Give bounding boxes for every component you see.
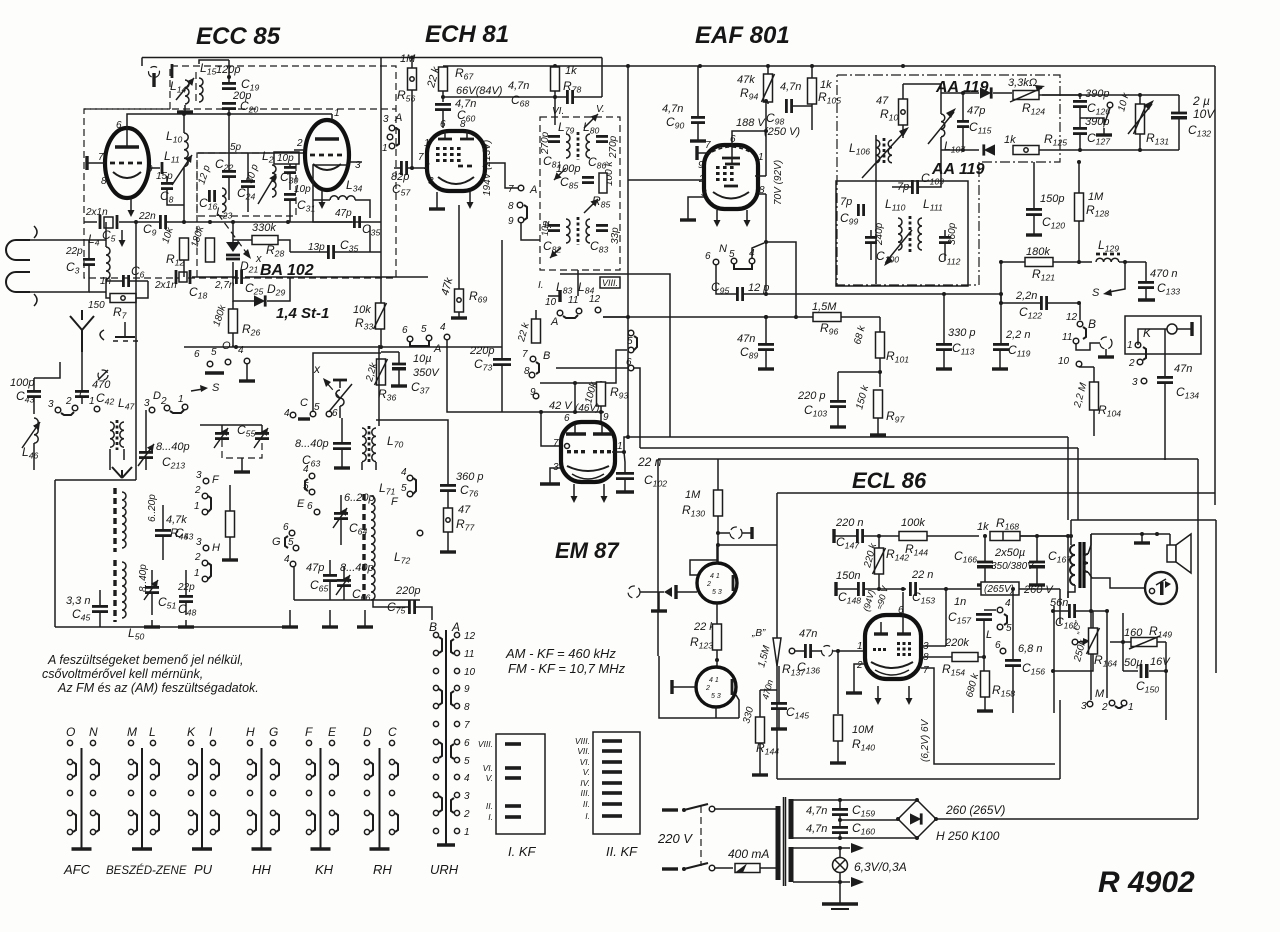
fuse 400mA xyxy=(735,864,760,873)
capacitor C100 xyxy=(865,237,877,242)
coil L46 xyxy=(34,418,38,443)
capacitor C35 xyxy=(354,216,359,228)
resistor R130 xyxy=(714,490,723,516)
bracket 7-8 B xyxy=(536,362,539,374)
svg-text:L72: L72 xyxy=(394,550,410,566)
wire xyxy=(105,222,107,247)
tube EAF801 anode bar xyxy=(722,157,740,160)
svg-text:FM - KF = 10,7 MHz: FM - KF = 10,7 MHz xyxy=(508,661,626,676)
svg-text:R26: R26 xyxy=(242,322,260,338)
contact xyxy=(389,125,395,131)
wire xyxy=(89,291,106,293)
capacitor C109 xyxy=(912,180,917,194)
capacitor C89 xyxy=(758,344,774,349)
resistor 180k xyxy=(206,238,215,262)
tube anode bar b xyxy=(315,137,339,140)
junction xyxy=(999,301,1003,305)
tall coil L71-L72 winding xyxy=(371,496,375,600)
svg-text:6: 6 xyxy=(564,413,570,424)
svg-text:R94: R94 xyxy=(740,86,758,102)
svg-text:6,8 n: 6,8 n xyxy=(1018,643,1042,655)
wire xyxy=(1178,119,1180,150)
wire 437bus to transformer xyxy=(1067,536,1069,598)
wire C43 top xyxy=(34,362,60,378)
wire xyxy=(88,246,90,259)
wire box right xyxy=(1165,642,1167,720)
svg-text:5: 5 xyxy=(401,483,407,494)
svg-text:6: 6 xyxy=(440,119,446,130)
terminal xyxy=(713,259,719,265)
L107 slash xyxy=(928,112,954,144)
junction xyxy=(286,220,290,224)
terminal xyxy=(557,310,563,316)
svg-text:L111: L111 xyxy=(923,197,943,213)
switch link dashed xyxy=(700,806,702,866)
tall coil core dashes upper xyxy=(113,488,116,552)
diode D29 xyxy=(254,295,265,306)
wire HT output xyxy=(936,818,1198,820)
wire K to jack xyxy=(1138,329,1167,345)
wire L70 to C76 xyxy=(376,420,448,484)
svg-text:R69: R69 xyxy=(469,289,487,305)
wire xyxy=(795,650,805,652)
ground xyxy=(846,686,862,693)
core dashes L14-L15 xyxy=(195,72,197,102)
svg-text:I. KF: I. KF xyxy=(508,844,537,859)
svg-text:4: 4 xyxy=(284,554,290,565)
switch group BESZÉD-ZENE xyxy=(106,725,187,877)
wire to pin1 xyxy=(833,650,865,652)
svg-text:H 250 K100: H 250 K100 xyxy=(936,829,1000,843)
terminal xyxy=(517,202,523,208)
junction xyxy=(1066,534,1070,538)
ground xyxy=(234,465,250,472)
svg-text:47p: 47p xyxy=(967,105,985,117)
svg-text:4: 4 xyxy=(401,467,407,478)
svg-text:11: 11 xyxy=(1062,332,1072,343)
junction xyxy=(1051,669,1055,673)
wire xyxy=(162,505,164,530)
wire long vertical x628 xyxy=(627,66,629,310)
svg-text:AA 119: AA 119 xyxy=(931,161,985,178)
terminal xyxy=(310,411,316,417)
junction xyxy=(1035,534,1039,538)
junction xyxy=(961,148,965,152)
wire xyxy=(228,60,230,83)
wire pin1 to riser xyxy=(755,175,766,177)
capacitor C86 xyxy=(596,136,608,141)
switch group URH xyxy=(429,620,476,877)
capacitor C103 xyxy=(830,401,846,406)
svg-text:8: 8 xyxy=(101,176,107,187)
svg-text:1: 1 xyxy=(464,827,470,838)
wire xyxy=(340,495,342,513)
svg-text:4: 4 xyxy=(464,773,470,784)
switch contact top xyxy=(709,806,715,812)
wire xyxy=(697,106,699,117)
resistor R77 xyxy=(444,508,453,532)
R164 wiper arrow xyxy=(1078,641,1086,642)
junction xyxy=(982,655,986,659)
trimmer arrow C213 xyxy=(138,444,154,466)
contact 5 EM xyxy=(628,347,634,353)
wire xyxy=(1104,108,1110,125)
wire y459 left drop to triode2 xyxy=(657,459,659,656)
junction xyxy=(553,95,557,99)
bracket D xyxy=(170,410,184,413)
wire C162 right xyxy=(1076,610,1107,612)
svg-text:2: 2 xyxy=(856,660,863,671)
svg-text:R 4902: R 4902 xyxy=(1098,866,1195,899)
svg-text:6: 6 xyxy=(705,251,711,262)
svg-text:350V: 350V xyxy=(413,367,440,379)
svg-text:(46V): (46V) xyxy=(575,403,599,414)
ground L14 xyxy=(177,105,193,112)
ground xyxy=(758,362,774,369)
wire contact4 up xyxy=(752,243,764,258)
wire antenna to C42 xyxy=(81,362,83,391)
capacitor C43 xyxy=(27,391,41,396)
wire xyxy=(341,418,343,443)
wire pin3 left xyxy=(688,197,704,220)
svg-text:5 3: 5 3 xyxy=(712,589,722,596)
svg-text:2: 2 xyxy=(194,552,201,563)
junction xyxy=(764,292,768,296)
svg-text:II.: II. xyxy=(583,799,590,809)
svg-text:C112: C112 xyxy=(938,251,961,267)
wire pin9 drop xyxy=(600,412,602,422)
capacitor C65 xyxy=(323,575,337,580)
svg-text:12: 12 xyxy=(464,631,476,642)
svg-text:R131: R131 xyxy=(1146,131,1169,147)
resistor R105 xyxy=(808,78,817,104)
ground xyxy=(690,134,706,141)
wire xyxy=(1139,134,1141,150)
wire tuning to contact row xyxy=(339,414,341,418)
svg-text:3: 3 xyxy=(196,470,202,481)
resistor R125 xyxy=(1013,146,1039,155)
switch group HH xyxy=(246,725,279,877)
wire L34 left xyxy=(313,199,330,201)
wire R130 down xyxy=(717,516,719,563)
junction xyxy=(838,846,842,850)
junction xyxy=(934,817,938,821)
wire xyxy=(944,243,946,260)
wire R144b top xyxy=(759,690,761,717)
svg-text:C5: C5 xyxy=(102,228,116,244)
oscillator dashed divider xyxy=(196,160,198,278)
junction xyxy=(182,220,186,224)
svg-text:7: 7 xyxy=(705,140,711,151)
svg-text:7: 7 xyxy=(522,349,528,360)
wire xyxy=(877,418,879,428)
wire C213 top xyxy=(145,410,147,452)
svg-text:47p: 47p xyxy=(335,208,352,219)
wire triode2 out xyxy=(736,695,739,718)
wire xyxy=(1079,107,1081,128)
svg-text:csővoltmérővel kell mérnünk,: csővoltmérővel kell mérnünk, xyxy=(42,667,203,681)
svg-text:AM - KF = 460 kHz: AM - KF = 460 kHz xyxy=(505,646,616,661)
svg-text:10p: 10p xyxy=(540,221,550,236)
wire bottom tie xyxy=(184,346,502,348)
wire xyxy=(878,574,880,589)
wire xyxy=(261,425,263,433)
junction xyxy=(915,836,919,840)
wire primary bottom xyxy=(1068,585,1075,598)
wire xyxy=(811,66,813,78)
tube EAF801 lower electrode xyxy=(724,185,738,188)
svg-text:5: 5 xyxy=(211,347,217,358)
capacitor C102 xyxy=(616,473,634,478)
electrolytic C37 xyxy=(392,364,406,371)
svg-text:R121: R121 xyxy=(1032,267,1055,283)
wire xyxy=(232,301,234,309)
capacitor C156 xyxy=(1005,660,1021,665)
cathode arrow EAF b xyxy=(744,210,751,227)
capacitor C63 xyxy=(333,443,351,448)
wire to C162 xyxy=(1059,589,1061,624)
svg-text:1: 1 xyxy=(382,143,388,154)
capacitor C18 xyxy=(176,270,190,284)
wire xyxy=(811,650,822,652)
svg-text:1M: 1M xyxy=(1088,191,1104,203)
tall coil core dashes lower xyxy=(113,560,116,622)
ground xyxy=(222,553,238,560)
svg-text:4: 4 xyxy=(1005,598,1011,609)
FM tuner dashed enclosure xyxy=(84,66,396,278)
C148 input bar xyxy=(834,582,837,596)
wire to C5 xyxy=(84,221,97,223)
EM87 cathode arc xyxy=(567,466,609,471)
svg-text:L: L xyxy=(986,629,992,641)
terminal xyxy=(290,412,296,418)
svg-text:150: 150 xyxy=(88,300,105,311)
svg-text:F: F xyxy=(212,474,220,486)
trimmer arrow C55b xyxy=(254,428,268,448)
varicap diode D21 xyxy=(226,242,240,259)
wire xyxy=(343,566,345,580)
wire R93 down xyxy=(600,406,602,412)
wire C24 xyxy=(247,160,249,181)
svg-text:I.: I. xyxy=(585,811,590,821)
wire xyxy=(221,425,223,433)
svg-text:C37: C37 xyxy=(411,380,430,396)
junction xyxy=(716,543,720,547)
svg-text:470: 470 xyxy=(92,379,111,391)
wire xyxy=(375,462,377,470)
capacitor C127 xyxy=(1073,128,1087,133)
wire R149 right xyxy=(1157,641,1166,643)
svg-text:330 p: 330 p xyxy=(948,327,976,339)
transformer L70 windings xyxy=(362,426,376,462)
svg-text:K: K xyxy=(1143,326,1152,340)
wire right frame vertical xyxy=(1214,66,1216,505)
wire xyxy=(944,230,946,237)
resistor R121 xyxy=(1025,258,1053,267)
svg-text:470 n: 470 n xyxy=(1150,268,1178,280)
ground xyxy=(752,768,768,775)
bracket 12-11 xyxy=(1083,327,1086,339)
transformer primary bar xyxy=(776,806,781,880)
capacitor C115 xyxy=(957,121,969,126)
junction xyxy=(1051,609,1055,613)
terminal xyxy=(94,406,100,412)
capacitor C64 xyxy=(334,513,348,518)
svg-text:C68: C68 xyxy=(511,93,529,109)
svg-text:150p: 150p xyxy=(1040,193,1064,205)
wire AVC line from C95 xyxy=(766,294,1001,303)
speaker symbol xyxy=(1167,534,1191,573)
svg-text:4: 4 xyxy=(440,322,446,333)
wire xyxy=(99,612,101,627)
svg-text:270p: 270p xyxy=(540,131,551,155)
triode2 grid bar xyxy=(672,680,696,694)
junction xyxy=(983,534,987,538)
svg-text:E: E xyxy=(297,498,305,510)
wire L34 right xyxy=(355,200,370,218)
resistor R123 xyxy=(713,624,722,650)
wire pin9 to contact7 xyxy=(484,163,518,188)
transformer L110 L111 windings xyxy=(898,216,922,252)
dashed terminal circle xyxy=(1100,337,1112,349)
wire xyxy=(767,66,769,74)
svg-text:100p: 100p xyxy=(556,163,580,175)
resistor R108 xyxy=(899,99,908,125)
tube ECL86 triode1 envelope xyxy=(697,563,737,603)
resistor R67 xyxy=(439,67,448,91)
wire speaker line xyxy=(1091,533,1170,535)
capacitor C45 xyxy=(92,606,108,611)
AVC line stub xyxy=(396,276,428,278)
wire R168 right xyxy=(1020,535,1071,537)
svg-text:L23: L23 xyxy=(216,205,232,221)
wire xyxy=(99,590,101,606)
wire xyxy=(106,280,122,282)
terminal xyxy=(1076,361,1082,367)
heater arrow top xyxy=(851,843,864,853)
svg-text:4,7n: 4,7n xyxy=(806,823,827,835)
wire xyxy=(458,312,460,318)
capacitor C160 xyxy=(832,827,848,832)
wire xyxy=(447,532,449,545)
wire left vertical xyxy=(135,281,137,480)
svg-text:R140: R140 xyxy=(852,737,875,753)
svg-text:III.: III. xyxy=(581,788,590,798)
mains switch arm top xyxy=(684,804,708,810)
svg-text:180k: 180k xyxy=(1026,246,1050,258)
trimmer arrow L14 xyxy=(176,78,194,100)
output transformer core bars xyxy=(1080,542,1084,588)
svg-text:47n: 47n xyxy=(1174,363,1192,375)
wire xyxy=(33,397,35,414)
transformer heater secondary bar xyxy=(789,847,794,882)
wire right frame lower xyxy=(1215,520,1217,673)
svg-text:A feszültségeket bemenő jel né: A feszültségeket bemenő jel nélkül, xyxy=(47,653,243,667)
capacitor C120 xyxy=(1026,209,1042,214)
svg-text:7: 7 xyxy=(553,438,559,449)
wire xyxy=(1093,410,1095,436)
tube ECL86 pentode envelope xyxy=(865,615,921,679)
svg-text:G: G xyxy=(272,536,281,548)
wire C73 vertical top xyxy=(501,240,503,359)
ground xyxy=(178,620,194,627)
wire C6 right xyxy=(130,280,148,282)
svg-text:L47: L47 xyxy=(118,396,135,412)
svg-text:C160: C160 xyxy=(852,821,875,837)
wire L106 left down xyxy=(875,135,877,284)
coil L15 xyxy=(199,78,203,102)
wire xyxy=(658,592,660,604)
svg-text:C119: C119 xyxy=(1008,343,1031,359)
wire contact12 right xyxy=(603,316,628,318)
wire xyxy=(340,519,342,545)
svg-text:1M: 1M xyxy=(400,53,416,65)
svg-text:R96: R96 xyxy=(820,321,838,337)
coil L34 xyxy=(330,196,355,200)
terminal xyxy=(314,509,320,515)
terminal xyxy=(207,361,213,367)
wire oscillator top xyxy=(199,60,229,64)
wire A4 to EM87 row xyxy=(447,340,604,412)
svg-text:C132: C132 xyxy=(1188,123,1211,139)
svg-text:R130: R130 xyxy=(682,503,705,519)
wire R108 down xyxy=(902,125,904,138)
wire C55 left entry xyxy=(200,424,222,426)
wire xyxy=(716,650,718,667)
wire xyxy=(289,164,291,167)
wire C98 to R105 xyxy=(792,105,812,107)
S switch arrow xyxy=(1103,262,1125,296)
svg-text:1: 1 xyxy=(1128,702,1134,713)
capacitor C48 xyxy=(179,596,193,601)
svg-text:270p: 270p xyxy=(608,135,619,159)
capacitor C3 xyxy=(83,259,95,264)
bracket O xyxy=(205,371,224,374)
junction xyxy=(764,315,768,319)
wire C103 top xyxy=(837,372,839,401)
boxed 10p label xyxy=(274,152,299,164)
wire R121 right xyxy=(1053,261,1092,263)
svg-text:L79: L79 xyxy=(558,120,574,136)
wire screen line xyxy=(443,96,566,98)
capacitor C22 xyxy=(222,171,236,176)
svg-text:3: 3 xyxy=(464,791,470,802)
terminal xyxy=(309,473,315,479)
junction xyxy=(410,56,414,60)
svg-text:C: C xyxy=(300,397,308,409)
svg-text:II. KF: II. KF xyxy=(606,844,638,859)
wire pin7 feedback xyxy=(921,668,1055,764)
wire R164 top xyxy=(1092,611,1094,628)
wire xyxy=(442,91,444,102)
junction xyxy=(553,64,557,68)
electrolytic C166 xyxy=(977,562,993,569)
wire xyxy=(837,741,839,756)
tube grid dashes b xyxy=(310,154,346,157)
terminal xyxy=(997,607,1003,613)
svg-text:2,2 M: 2,2 M xyxy=(1072,381,1090,410)
terminal ground xyxy=(1098,349,1114,357)
svg-text:10: 10 xyxy=(464,667,476,678)
svg-text:6: 6 xyxy=(283,522,289,533)
tube ECH81 envelope xyxy=(427,131,485,191)
capacitor C119 xyxy=(993,344,1009,349)
ground C102 xyxy=(616,490,634,493)
wire R121 left xyxy=(1001,261,1025,263)
terminal xyxy=(533,393,539,399)
svg-text:ECC 85: ECC 85 xyxy=(196,23,281,50)
svg-text:G: G xyxy=(269,725,278,739)
